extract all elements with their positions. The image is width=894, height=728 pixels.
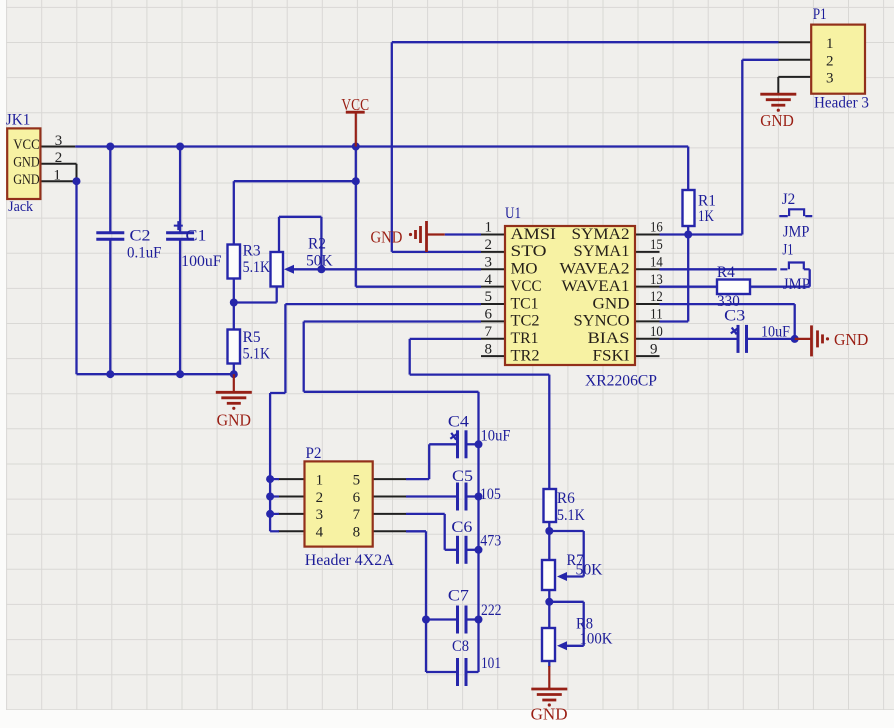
svg-text:TC1: TC1	[511, 295, 539, 312]
svg-text:JMP: JMP	[783, 276, 810, 293]
R7 wiper arrow	[557, 572, 567, 581]
svg-text:MO: MO	[511, 261, 538, 278]
wire to C4 left	[429, 443, 457, 445]
U1 pin 15 stub	[635, 251, 660, 253]
R8 wiper arrow	[557, 641, 567, 650]
resistor R4 body	[717, 280, 750, 295]
wire up to C4	[428, 444, 430, 479]
svg-text:C6: C6	[451, 519, 472, 536]
svg-text:1: 1	[316, 472, 324, 488]
svg-text:R6: R6	[557, 490, 575, 507]
U1 pin 4 stub	[481, 286, 505, 288]
svg-text:SYNCO: SYNCO	[574, 313, 630, 330]
wire TC2 across	[304, 391, 479, 393]
svg-text:WAVEA1: WAVEA1	[562, 278, 630, 295]
wire down C7/C8 left bus	[425, 531, 427, 672]
P1 pin3 stub	[778, 76, 811, 78]
capacitor C8	[458, 658, 467, 686]
junction P2 pin1	[266, 475, 274, 483]
svg-text:14: 14	[650, 254, 663, 270]
junction P2 pin2	[266, 493, 274, 501]
P2 pin 3 stub	[278, 513, 305, 515]
junction C3/GND	[791, 335, 799, 343]
svg-text:11: 11	[650, 307, 663, 323]
capacitor C5	[458, 483, 467, 511]
wire cap right bus	[477, 392, 479, 672]
U1 pin 14 stub	[635, 268, 660, 270]
junction R3 top	[352, 177, 360, 185]
wire C3 right	[746, 338, 795, 340]
svg-text:GND: GND	[531, 705, 568, 724]
capacitor C4	[448, 430, 466, 458]
wire C5 right	[466, 495, 479, 497]
wire to C7 left	[426, 618, 458, 620]
U1 pin 5 stub	[481, 303, 505, 305]
svg-text:U1: U1	[505, 205, 521, 222]
wire TC2 down	[303, 322, 305, 392]
svg-text:5.1K: 5.1K	[243, 346, 271, 363]
wire TC1 down	[284, 304, 286, 393]
svg-text:C5: C5	[452, 468, 473, 485]
wire JK1 gnd drop	[75, 181, 77, 374]
U1 pin 16 stub	[635, 234, 660, 236]
wire top rail to P1 pin1	[392, 41, 779, 43]
svg-text:8: 8	[485, 341, 493, 357]
wire C6 right	[466, 549, 479, 551]
svg-text:WAVEA2: WAVEA2	[560, 261, 630, 278]
wire R8 wiper	[566, 645, 584, 647]
connector JK1 body	[7, 128, 40, 199]
wire C4 right	[466, 443, 479, 445]
svg-text:3: 3	[316, 507, 324, 523]
potentiometer R7 body	[542, 560, 555, 590]
wire R2 top over	[279, 216, 321, 218]
svg-text:TR1: TR1	[511, 330, 539, 347]
wire C1 top	[179, 147, 181, 233]
wire R6 bottom to R7 top	[548, 522, 550, 560]
junction R1 bottom/pin16	[684, 231, 692, 239]
wire R8 bottom	[548, 661, 550, 667]
svg-text:10uF: 10uF	[761, 324, 790, 341]
svg-text:16: 16	[650, 220, 663, 236]
svg-text:XR2206CP: XR2206CP	[585, 372, 657, 389]
U1 pin 2 stub	[481, 251, 505, 253]
svg-text:R3: R3	[243, 242, 261, 259]
wire C8 right	[466, 671, 479, 673]
svg-text:Header 4X2A: Header 4X2A	[305, 552, 395, 569]
wire U1 pin14 to J1	[660, 268, 777, 270]
svg-text:4: 4	[485, 272, 493, 288]
wire down to C6	[444, 514, 446, 550]
svg-text:5: 5	[485, 289, 493, 305]
JK1 pin2 jog down	[76, 164, 78, 180]
svg-text:GND: GND	[13, 155, 40, 171]
wire TR1 across	[410, 373, 550, 375]
junction JK1 pins	[73, 177, 81, 185]
wire down to R6 top	[548, 375, 550, 489]
svg-text:10: 10	[650, 324, 663, 340]
svg-text:VCC: VCC	[13, 137, 40, 153]
svg-text:3: 3	[485, 254, 493, 270]
svg-text:C3: C3	[724, 308, 745, 325]
wire R7 bottom to R8 top	[548, 590, 550, 628]
svg-text:222: 222	[481, 602, 502, 619]
svg-text:P1: P1	[813, 6, 827, 23]
P2 pin 7 stub	[373, 513, 406, 515]
U1 pin 3 stub	[481, 268, 505, 270]
svg-text:50K: 50K	[306, 253, 333, 270]
svg-text:BIAS: BIAS	[588, 330, 630, 347]
svg-text:1: 1	[826, 36, 834, 52]
U1 pin 9 stub	[635, 355, 660, 357]
svg-text:105: 105	[480, 486, 501, 503]
resistor R3 body	[228, 245, 241, 279]
P2 pin 2 stub	[278, 496, 305, 498]
svg-text:C2: C2	[130, 228, 151, 245]
jumper J2	[779, 209, 812, 216]
wire U1 pin5 TC1	[285, 303, 481, 305]
svg-text:GND: GND	[371, 227, 403, 246]
capacitor C7	[458, 606, 467, 634]
svg-text:3: 3	[55, 133, 63, 149]
wire R8 wiper branch over	[549, 601, 583, 603]
P2 pin 8 stub	[373, 530, 406, 532]
U1 pin 1 stub	[481, 234, 505, 236]
svg-text:GND: GND	[217, 410, 251, 429]
svg-text:STO: STO	[511, 243, 547, 260]
junction C5 right	[475, 493, 483, 501]
svg-text:1: 1	[53, 168, 61, 184]
svg-text:15: 15	[650, 237, 663, 253]
wire TC1 jog	[270, 392, 285, 394]
svg-text:AMSI: AMSI	[511, 226, 557, 243]
wire C2 top	[109, 147, 111, 233]
svg-text:JMP: JMP	[783, 223, 810, 240]
svg-text:GND: GND	[834, 330, 868, 349]
ground under R8	[548, 666, 550, 689]
U1 pin 6 stub	[481, 320, 505, 322]
resistor R1 body	[683, 190, 695, 226]
svg-text:101: 101	[481, 655, 501, 672]
P2 pin 6 stub	[373, 496, 406, 498]
svg-text:P2: P2	[306, 445, 322, 462]
wire VCC rail	[75, 145, 688, 147]
svg-text:1: 1	[485, 220, 493, 236]
ground under R5	[233, 374, 235, 392]
wire VCC down to pin4 row	[355, 147, 357, 287]
P2 pin 4 stub	[278, 530, 305, 532]
junction C1 gnd rail	[176, 370, 184, 378]
wire R2 top down to wiper	[320, 217, 322, 269]
svg-text:2: 2	[316, 490, 324, 506]
svg-text:VCC: VCC	[511, 278, 542, 295]
svg-text:9: 9	[650, 341, 658, 357]
wire U1 pin12	[660, 303, 795, 305]
junction R5 gnd	[230, 370, 238, 378]
wire to C8 left	[426, 671, 458, 673]
svg-text:TC2: TC2	[511, 313, 540, 330]
junction C7 left	[422, 616, 430, 624]
svg-text:7: 7	[485, 324, 493, 340]
svg-text:7: 7	[353, 507, 361, 523]
svg-text:2: 2	[55, 150, 63, 166]
svg-text:GND: GND	[760, 111, 794, 130]
svg-text:R2: R2	[308, 236, 326, 253]
wire R2 bottom to R3/R5 junction	[234, 301, 277, 303]
svg-text:GND: GND	[593, 295, 630, 312]
wire R4 to J1 right	[750, 286, 810, 288]
svg-text:13: 13	[650, 272, 663, 288]
wire C2 bottom	[109, 239, 111, 374]
svg-text:5.1K: 5.1K	[557, 507, 586, 524]
U1 pin 7 stub	[481, 338, 505, 340]
capacitor C6	[458, 536, 467, 564]
jumper J1	[780, 263, 809, 270]
potentiometer R2 body	[271, 252, 284, 287]
svg-text:0.1uF: 0.1uF	[127, 244, 162, 261]
svg-text:J1: J1	[782, 241, 793, 258]
junction C4 right	[475, 440, 483, 448]
svg-text:C1: C1	[186, 228, 207, 245]
wire to U1 pin2	[392, 251, 481, 253]
wire R5 bottom	[233, 364, 235, 375]
wire P1 pin2 vertical	[741, 60, 743, 235]
wire TC1 to P2 pins	[269, 393, 271, 531]
svg-text:R4: R4	[717, 264, 735, 281]
wire vertical to U1 pin2	[391, 42, 393, 252]
ground at U1 pin1	[427, 233, 445, 235]
wire U1 pin6 TC2	[304, 320, 481, 322]
svg-text:50K: 50K	[576, 562, 604, 579]
connector P2 body	[305, 461, 373, 546]
JK1 pin1 stub	[40, 180, 76, 182]
wire C1 bottom	[179, 239, 181, 374]
wire GND to U1 pin1	[445, 233, 481, 235]
wire R7 wiper	[566, 575, 584, 577]
wire to U1 pin 11	[660, 320, 689, 322]
svg-text:10uF: 10uF	[481, 427, 511, 444]
R2 wiper arrow	[284, 265, 294, 274]
U1 pin 10 stub	[635, 338, 660, 340]
wire J1 right down	[809, 269, 811, 286]
P2 pin 5 stub	[373, 478, 406, 480]
wire R3 bottom to R5 top	[233, 279, 235, 330]
wire U1 pin7 TR1	[410, 338, 481, 340]
svg-text:GND: GND	[13, 172, 40, 188]
wire P2 pin5 to C4	[406, 478, 429, 480]
P1 pin1 stub	[779, 41, 812, 43]
wire R7 wiper branch down	[583, 531, 585, 577]
U1 pin 8 stub	[481, 355, 505, 357]
wire U1 pin16 to P1 pin2 drop	[660, 233, 743, 235]
svg-text:5.1K: 5.1K	[243, 259, 271, 276]
junction C7 right	[475, 616, 483, 624]
junction C1/VCC rail	[176, 143, 184, 151]
svg-text:SYMA2: SYMA2	[572, 226, 630, 243]
capacitor C2	[96, 233, 124, 240]
svg-text:SYMA1: SYMA1	[574, 243, 630, 260]
junction VCC symbol	[352, 143, 360, 151]
svg-text:Header 3: Header 3	[814, 95, 869, 112]
wire U1 pin13 to R4	[660, 286, 718, 288]
wire R3 top to VCC line	[234, 180, 356, 182]
junction R3/R5/R2	[230, 299, 238, 307]
svg-text:C7: C7	[448, 587, 469, 604]
wire R2 bottom down	[276, 287, 278, 303]
svg-text:8: 8	[353, 525, 361, 541]
svg-text:R1: R1	[698, 192, 716, 209]
svg-text:JK1: JK1	[6, 112, 31, 129]
wire to P1 pin2	[742, 59, 778, 61]
potentiometer R8 body	[542, 628, 555, 661]
P1 pin2 stub	[779, 59, 812, 61]
wire C7 right	[466, 618, 479, 620]
JK1 pin2 stub	[40, 163, 76, 165]
wire R7 wiper branch over	[549, 530, 583, 532]
wire VCC rail to R1 top	[687, 147, 689, 191]
connector P1 body	[811, 25, 865, 94]
junction R2 top/wiper	[317, 265, 325, 273]
wire P2 pin7 to C6	[406, 513, 445, 515]
IC U1 XR2206CP body	[505, 226, 635, 365]
svg-text:12: 12	[650, 289, 663, 305]
svg-text:4: 4	[316, 525, 324, 541]
junction P2 pin3	[266, 510, 274, 518]
wire R1 bottom down to pin11 row	[687, 226, 689, 322]
capacitor C1	[166, 233, 194, 240]
svg-text:5: 5	[353, 472, 361, 488]
wire R8 wiper branch down	[583, 602, 585, 646]
wire TR1 down	[409, 339, 411, 375]
svg-text:FSKI: FSKI	[593, 347, 630, 364]
svg-text:100uF: 100uF	[181, 253, 222, 270]
svg-text:C8: C8	[452, 638, 469, 655]
svg-text:6: 6	[353, 490, 361, 506]
svg-text:TR2: TR2	[511, 347, 540, 364]
U1 pin 13 stub	[635, 286, 660, 288]
resistor R6 body	[544, 489, 557, 522]
svg-text:2: 2	[485, 237, 493, 253]
svg-text:100K: 100K	[580, 631, 614, 648]
svg-text:473: 473	[480, 532, 501, 549]
wire R2 wiper to U1 pin3	[293, 268, 481, 270]
junction C2 gnd rail	[106, 370, 114, 378]
svg-text:2: 2	[826, 54, 834, 70]
P1 pin3 gnd drop	[777, 77, 779, 93]
wire P2 pin8 over	[406, 530, 426, 532]
svg-text:VCC: VCC	[341, 95, 369, 114]
power VCC symbol	[346, 111, 365, 114]
junction C2/VCC rail	[106, 143, 114, 151]
svg-text:J2: J2	[782, 191, 796, 208]
wire to C6 left	[445, 549, 458, 551]
ground at C3	[795, 338, 812, 340]
ground at P1	[760, 94, 796, 112]
svg-text:Jack: Jack	[8, 199, 34, 215]
U1 pin 12 stub	[635, 303, 660, 305]
wire U1 pin10 to C3	[660, 338, 739, 340]
resistor R5 body	[228, 330, 241, 364]
junction R6/R7	[545, 527, 553, 535]
svg-text:C4: C4	[448, 413, 469, 430]
wire R3 top up	[233, 181, 235, 244]
junction C6 right	[475, 546, 483, 554]
svg-text:1K: 1K	[698, 208, 715, 225]
P2 pin 1 stub	[278, 478, 305, 480]
wire pin12 down to C3 node	[794, 304, 796, 339]
wire P2 pin6 to C5	[406, 495, 458, 497]
JK1 pin3 stub	[40, 146, 75, 148]
svg-text:6: 6	[485, 307, 493, 323]
svg-text:3: 3	[826, 70, 834, 86]
wire R2 top up	[278, 217, 280, 252]
U1 pin 11 stub	[635, 320, 660, 322]
wire to U1 pin4	[356, 286, 481, 288]
svg-text:R5: R5	[243, 329, 261, 346]
junction R7/R8	[545, 598, 553, 606]
capacitor C3	[728, 325, 746, 353]
wire bottom ground rail	[77, 373, 234, 375]
